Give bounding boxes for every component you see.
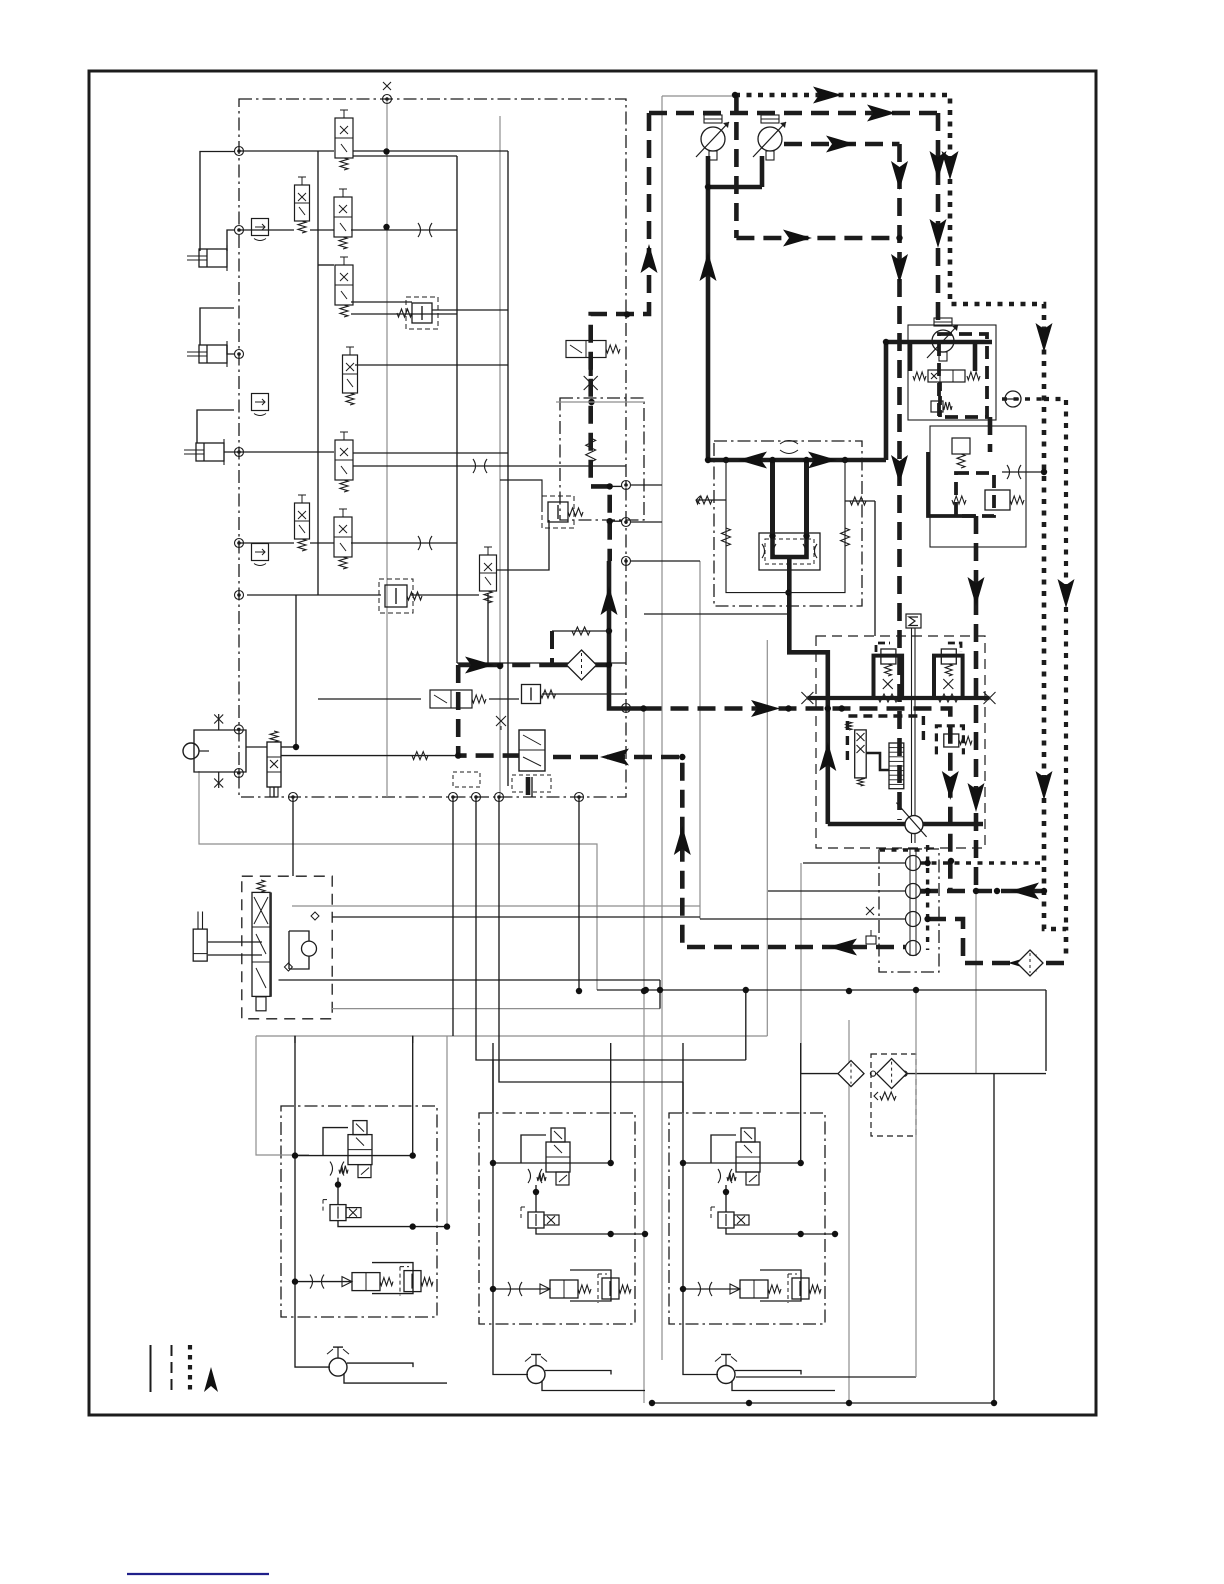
wire <box>476 797 746 1060</box>
junction <box>803 533 809 539</box>
drain dotted c2 stub <box>920 890 928 893</box>
bold pipe main riser <box>706 187 711 460</box>
drain dotted main <box>735 95 1066 955</box>
swing motor dashed box <box>847 716 923 762</box>
relief valve RV2 <box>548 502 568 522</box>
pilot dashed long drop <box>897 144 902 820</box>
diamond port <box>284 963 292 971</box>
wire gray vertical center-left <box>386 99 388 797</box>
wire gray travel link 1 <box>256 1035 767 1037</box>
cylinder CY1 <box>199 249 227 267</box>
port <box>235 539 244 548</box>
wire gray top link <box>662 95 735 97</box>
port <box>289 793 298 802</box>
junction <box>455 752 461 758</box>
port <box>234 725 243 734</box>
wire <box>318 698 421 700</box>
wire <box>492 1060 494 1113</box>
wire swing out dark <box>332 916 700 918</box>
wire gray swing out 1 <box>292 905 700 907</box>
drain dotted swivel <box>926 845 929 950</box>
wire gray b1 right <box>446 1036 448 1227</box>
wire gray filter drain <box>915 991 917 1377</box>
wire <box>310 542 334 544</box>
port <box>622 518 631 527</box>
wire right bus <box>507 151 509 786</box>
regulator RG2 <box>252 394 269 411</box>
solenoid valve SV1 <box>430 690 472 708</box>
arrow <box>968 783 985 812</box>
legend dashed line <box>171 1345 173 1392</box>
wire <box>281 755 458 757</box>
arrow <box>751 700 780 717</box>
swivel ring 3 <box>906 912 921 927</box>
wire <box>631 707 643 709</box>
pump P0 <box>183 743 199 759</box>
arrow <box>968 577 985 606</box>
wire <box>497 520 549 570</box>
wire <box>310 229 334 231</box>
wire gray travel feed 1 <box>256 1036 309 1155</box>
spring <box>945 664 952 676</box>
wire <box>500 480 542 512</box>
wire swivel c2 line <box>768 890 906 892</box>
junction <box>842 457 848 463</box>
arrow left divider <box>738 452 767 469</box>
border frame <box>89 71 1096 1415</box>
bold pipe pump delivery <box>706 156 711 187</box>
wire <box>208 954 262 956</box>
xmark restrictor main <box>584 376 598 390</box>
bold dashed box regulator control <box>956 473 994 516</box>
flow restrictor <box>418 223 432 237</box>
wire <box>874 501 876 636</box>
junction <box>973 888 979 894</box>
valve V7 <box>295 503 310 539</box>
port <box>870 1071 875 1076</box>
bold relief rail <box>807 696 989 700</box>
wire <box>452 797 454 1036</box>
pilot dashed valve drop <box>526 777 531 797</box>
bold pipe pump header <box>708 185 762 190</box>
relief valve RVL <box>881 649 896 664</box>
wire block3 drain <box>736 1376 916 1378</box>
junction <box>746 1400 752 1406</box>
relief valve RVR <box>941 649 956 664</box>
junction <box>948 858 954 864</box>
solenoid valve SV2 <box>566 341 606 358</box>
wire <box>1002 471 1044 473</box>
bold reg frame <box>928 452 976 516</box>
arrow <box>1008 955 1037 972</box>
valve V6 <box>335 440 353 480</box>
wire gray swivel c3 branch <box>699 561 701 919</box>
wire gray long vertical A <box>661 96 663 1360</box>
spring on header <box>938 694 958 702</box>
arrow <box>1010 883 1039 900</box>
arrow <box>1058 579 1075 608</box>
relief valve RV3 <box>522 685 541 704</box>
filter F2 <box>877 1059 907 1089</box>
legend solid line <box>150 1345 152 1392</box>
port <box>472 793 481 802</box>
flow restrictor <box>473 459 487 473</box>
wire <box>845 500 875 502</box>
pilot dashed assy link <box>988 417 993 452</box>
junction <box>641 988 647 994</box>
sigma box <box>906 614 921 628</box>
gauge pressure <box>1005 391 1021 407</box>
bold pipe ball rail <box>828 822 983 827</box>
bold dashed box swing relief <box>936 726 963 755</box>
spring <box>885 664 892 676</box>
junction <box>991 1400 997 1406</box>
wire gray vertical bank right <box>499 116 501 797</box>
junction <box>649 1400 655 1406</box>
pilot port link <box>610 485 622 487</box>
arrow <box>930 219 947 248</box>
wire <box>318 264 334 266</box>
relief valve RV4 <box>931 401 943 412</box>
bold pipe <box>760 156 765 187</box>
wire <box>542 693 626 695</box>
wire <box>208 941 262 943</box>
wire <box>906 1073 1046 1075</box>
bold pipe assy inner top <box>908 342 913 371</box>
pump loop <box>194 730 246 772</box>
port <box>622 481 631 490</box>
relief valve RV5 <box>952 438 970 454</box>
cylinder CY2 <box>199 345 227 363</box>
flow restrictor <box>1007 465 1021 479</box>
enclosure box return filter <box>871 1054 916 1136</box>
arrow up center supply <box>601 586 618 615</box>
pilot dashed left drop <box>591 113 649 561</box>
drain dotted second return <box>1044 399 1066 929</box>
wire valve1 out <box>353 150 508 152</box>
flow restrictor <box>803 544 817 558</box>
port <box>235 448 244 457</box>
bold pipe divider header <box>708 458 886 463</box>
wire <box>489 698 519 700</box>
filter suction <box>567 650 597 680</box>
pilot dashed c3 return <box>928 919 1066 963</box>
bold pipe divider bar L <box>770 460 775 537</box>
flow restrictor <box>418 536 432 550</box>
enclosure box regulator assembly <box>930 426 1026 547</box>
junction <box>705 184 711 190</box>
bold dashed box pump control <box>939 334 987 417</box>
wire bottom tank <box>652 1402 994 1404</box>
relief valve RV1 <box>412 303 432 323</box>
valve V8 <box>334 517 352 557</box>
relief valve swing <box>944 734 959 747</box>
wire <box>456 156 458 663</box>
wire cyl2b <box>227 345 234 354</box>
junction <box>785 589 791 595</box>
divider valve box <box>759 533 820 570</box>
arrow <box>674 826 691 855</box>
bold relief legs L <box>874 656 903 698</box>
junction <box>785 705 791 711</box>
wire <box>246 746 267 748</box>
enclosure box main valve bank <box>239 99 626 797</box>
filter F1 <box>838 1061 864 1087</box>
valve vertical V9 <box>480 555 497 591</box>
wire <box>292 797 294 876</box>
check spring filter <box>880 1092 896 1100</box>
spring on pump line <box>412 752 428 760</box>
junction <box>1041 888 1047 894</box>
wire <box>317 151 319 595</box>
wire <box>353 452 508 454</box>
port <box>235 226 244 235</box>
wire <box>432 309 508 311</box>
pilot dashed pump drop <box>458 665 518 756</box>
xmark rail L <box>801 692 813 704</box>
enclosure box pump module <box>560 398 644 520</box>
valve V3 <box>334 197 352 237</box>
junction <box>769 533 775 539</box>
arrow <box>891 161 908 190</box>
wire <box>631 521 662 523</box>
bold pipe divider bar R <box>804 460 809 537</box>
bold pipe divider U <box>773 537 807 557</box>
wire <box>351 229 457 231</box>
pilot dashed inner horiz <box>736 236 899 241</box>
main control valve <box>519 730 545 771</box>
swivel ring 2 <box>906 884 921 899</box>
drain dotted gauge line <box>1002 397 1044 400</box>
swivel shaft <box>909 849 911 956</box>
pilot dashed suction <box>458 663 540 668</box>
valve V1 <box>335 118 353 158</box>
arrow right divider <box>808 452 837 469</box>
wire <box>224 451 334 453</box>
wire <box>295 595 297 747</box>
arrow swing drain <box>942 771 959 800</box>
junction <box>705 457 711 463</box>
arrow <box>891 254 908 283</box>
bold pipe center supply <box>609 561 644 709</box>
arrow pilot top <box>867 105 896 122</box>
xmark <box>943 679 953 689</box>
wire <box>247 594 381 596</box>
wire <box>531 777 533 797</box>
arrow <box>826 136 855 153</box>
wire <box>631 484 662 486</box>
wire swivel c1 line <box>803 862 906 864</box>
pilot dashed drain header <box>920 889 1044 894</box>
junction <box>769 457 775 463</box>
arrow <box>783 230 812 247</box>
check valve left <box>696 496 712 504</box>
wire <box>239 542 294 544</box>
junction <box>576 988 582 994</box>
check spring <box>572 627 590 635</box>
swing shaft double line <box>911 628 913 843</box>
travel block 2 <box>493 1043 528 1375</box>
arrow <box>1036 771 1053 800</box>
cylinder CY4 <box>193 929 207 961</box>
arrow <box>1036 323 1053 352</box>
wire <box>239 229 294 231</box>
wire cyl3 <box>197 410 234 443</box>
arrow up swing supply <box>819 742 836 771</box>
xmark <box>883 679 893 689</box>
wire <box>411 594 479 596</box>
arrow <box>828 939 857 956</box>
wire <box>457 662 626 664</box>
arrow right suction <box>465 657 494 674</box>
pilot dashed inner vert <box>734 95 739 238</box>
port <box>234 769 243 778</box>
swing brake valve <box>855 730 867 778</box>
unloader valve <box>385 585 407 607</box>
port <box>235 147 244 156</box>
pump P1 <box>701 127 725 151</box>
bold relief legs R <box>934 656 963 698</box>
swing brake piston <box>889 743 904 789</box>
flow shape <box>780 441 798 454</box>
xmark rail R <box>984 692 996 704</box>
wire <box>644 613 789 615</box>
junction <box>924 860 930 866</box>
junction <box>606 662 612 668</box>
arrow <box>600 749 629 766</box>
wire <box>355 364 508 366</box>
wire <box>499 797 683 1082</box>
arrow <box>942 151 959 180</box>
pilot dashed travel line <box>553 757 906 947</box>
wire <box>696 499 726 501</box>
spring <box>841 528 850 546</box>
valve 4port <box>267 742 281 787</box>
junction <box>723 457 729 463</box>
bold stub solenoid <box>589 357 593 376</box>
junction <box>896 235 902 241</box>
wire gray swivel c1 branch <box>800 863 802 1074</box>
wire gray drain to filter <box>975 892 977 1073</box>
pilot dashed stub <box>550 631 554 665</box>
port <box>622 704 631 713</box>
pilot dashed regulator drain <box>974 516 979 891</box>
port <box>235 350 244 359</box>
arrow <box>930 151 947 180</box>
junction <box>732 92 738 98</box>
arrow up main riser <box>700 252 717 281</box>
flow restrictor <box>762 544 776 558</box>
arrow <box>641 244 658 273</box>
regulator RG3 <box>252 544 269 561</box>
wire <box>351 313 457 315</box>
enclosure box travel motor 3 <box>669 1113 825 1324</box>
junction <box>839 705 845 711</box>
junction <box>846 1400 852 1406</box>
pilot dashed swing feed <box>644 709 951 892</box>
diamond port <box>311 912 319 920</box>
junction <box>1041 469 1047 475</box>
spring on pilot line <box>586 438 596 462</box>
wire <box>487 594 489 663</box>
drain dotted c1 stub <box>920 861 1044 865</box>
port <box>383 95 392 104</box>
wire <box>866 753 889 770</box>
wire <box>351 301 412 303</box>
wire <box>659 980 661 1009</box>
xmark <box>218 772 220 788</box>
filter return line <box>1017 950 1043 976</box>
relief valve RV6 <box>985 490 1010 510</box>
valve V2 <box>295 185 310 221</box>
swivel ring 4 <box>906 941 921 956</box>
wire <box>353 155 457 157</box>
wire <box>239 150 334 152</box>
wire <box>993 1073 995 1403</box>
travel block 1 <box>295 1036 330 1368</box>
ball valve <box>905 816 923 834</box>
spring on header <box>878 694 898 702</box>
wire <box>682 1082 684 1113</box>
pilot port link <box>610 520 622 522</box>
wire gray long vertical B <box>643 709 645 1403</box>
arrow <box>891 455 908 484</box>
pump P3 <box>932 330 954 352</box>
wire <box>281 746 296 748</box>
xmark <box>383 82 391 90</box>
enclosure box travel motor 1 <box>281 1106 437 1317</box>
footer rule <box>127 1573 269 1575</box>
port <box>622 557 631 566</box>
wire cyl1 <box>200 152 235 252</box>
pilot dashed right drop <box>936 113 941 325</box>
junction <box>825 705 831 711</box>
swing valve stack <box>252 892 270 996</box>
pilot dashed second header <box>784 142 900 147</box>
wire cyl2 <box>200 308 234 345</box>
wire <box>745 990 747 1060</box>
junction <box>803 457 809 463</box>
junction <box>994 888 1000 894</box>
main valve spool <box>928 370 965 382</box>
wire gray from pump to tank run <box>199 771 597 990</box>
travel block 3 <box>683 1043 718 1375</box>
enclosure box swivel joint <box>879 849 939 972</box>
spring <box>913 372 926 380</box>
junction <box>883 339 889 345</box>
wire gray box top <box>556 401 644 403</box>
wire <box>631 560 700 562</box>
pump P2 <box>758 127 782 151</box>
cylinder CY3 <box>196 443 224 461</box>
xmark <box>218 714 220 730</box>
wire <box>1045 990 1047 1071</box>
valve V4 <box>335 265 353 305</box>
wire <box>552 630 609 632</box>
wire divider frame <box>726 460 845 593</box>
enclosure box swing motor <box>242 876 332 1019</box>
junction <box>846 988 852 994</box>
pilot dashed assy drop <box>938 382 942 417</box>
legend arrow <box>204 1367 218 1392</box>
wire gray swivel c2 branch <box>766 640 768 1036</box>
wire travel b1 feeds <box>294 1036 296 1043</box>
pilot dashed top header <box>649 111 938 116</box>
wire swivel c3 line <box>700 918 906 920</box>
port <box>449 793 458 802</box>
bold pipe suction solid <box>540 663 609 668</box>
wire <box>801 1073 838 1075</box>
